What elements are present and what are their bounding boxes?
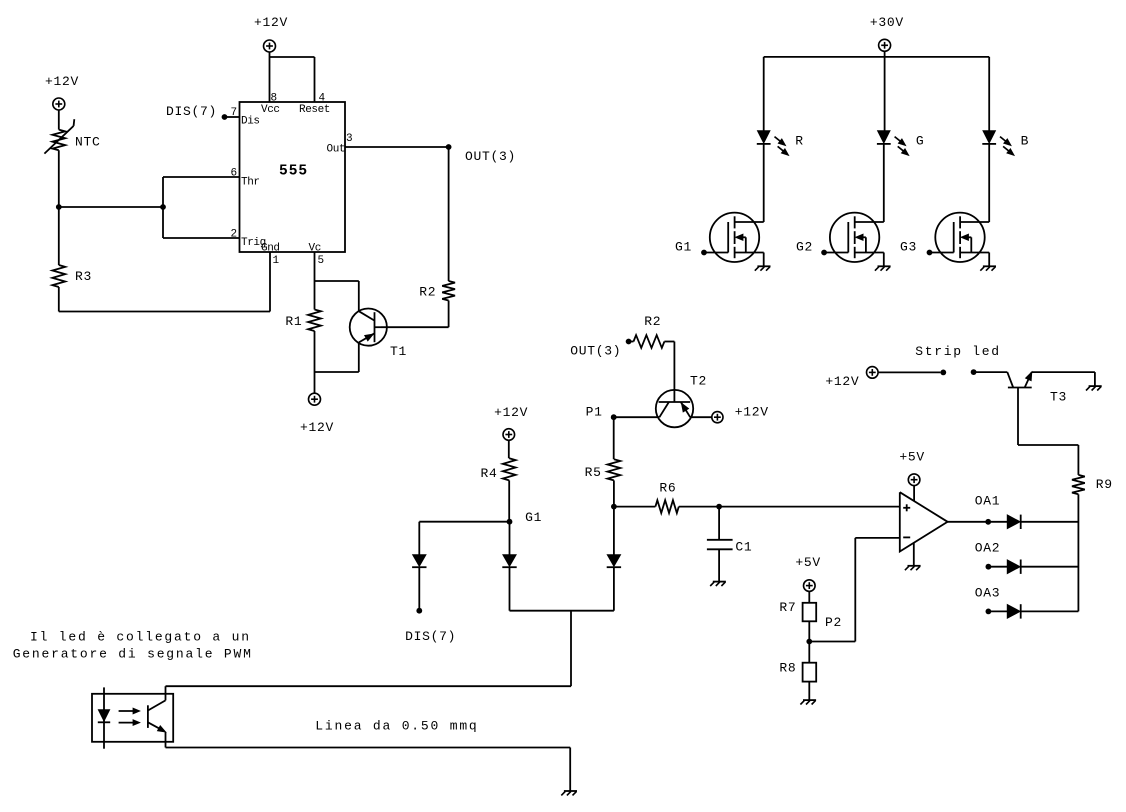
svg-text:OA3: OA3 <box>975 585 1001 600</box>
svg-text:DIS(7): DIS(7) <box>166 104 217 119</box>
svg-text:NTC: NTC <box>75 135 101 150</box>
svg-text:T3: T3 <box>1050 390 1067 405</box>
svg-text:Reset: Reset <box>299 104 330 116</box>
svg-text:G1: G1 <box>675 240 692 255</box>
svg-text:8: 8 <box>271 93 278 105</box>
svg-text:+12V: +12V <box>300 420 334 435</box>
svg-text:G2: G2 <box>796 240 813 255</box>
svg-text:OA2: OA2 <box>975 541 1001 556</box>
svg-text:OUT(3): OUT(3) <box>465 149 516 164</box>
svg-text:R5: R5 <box>585 465 602 480</box>
svg-text:Vcc: Vcc <box>261 104 280 116</box>
svg-text:+12V: +12V <box>45 74 79 89</box>
svg-text:OA1: OA1 <box>975 493 1001 508</box>
svg-text:B: B <box>1021 133 1030 148</box>
svg-text:DIS(7): DIS(7) <box>405 629 456 644</box>
svg-text:R6: R6 <box>659 480 676 495</box>
svg-text:C1: C1 <box>735 540 752 555</box>
svg-text:+12V: +12V <box>254 15 288 30</box>
svg-text:3: 3 <box>346 133 353 145</box>
svg-text:T1: T1 <box>390 344 407 359</box>
svg-text:Dis: Dis <box>241 116 260 128</box>
svg-text:+5V: +5V <box>899 449 925 464</box>
svg-text:Strip led: Strip led <box>915 344 1001 359</box>
svg-text:R4: R4 <box>481 466 498 481</box>
svg-text:+30V: +30V <box>870 15 904 30</box>
svg-text:P2: P2 <box>825 615 842 630</box>
svg-text:R2: R2 <box>419 284 436 299</box>
svg-text:Il led è collegato a un: Il led è collegato a un <box>30 630 251 645</box>
svg-text:4: 4 <box>319 93 326 105</box>
svg-text:T2: T2 <box>690 374 707 389</box>
svg-text:+12V: +12V <box>735 405 769 420</box>
svg-text:Thr: Thr <box>241 177 260 189</box>
svg-text:Generatore di segnale PWM: Generatore di segnale PWM <box>13 646 253 661</box>
svg-text:5: 5 <box>318 255 325 267</box>
svg-text:P1: P1 <box>586 405 603 420</box>
svg-text:R9: R9 <box>1096 477 1113 492</box>
svg-text:+5V: +5V <box>795 555 821 570</box>
svg-text:R7: R7 <box>779 600 796 615</box>
svg-text:R3: R3 <box>75 269 92 284</box>
svg-text:G1: G1 <box>525 510 542 525</box>
svg-text:Out: Out <box>327 144 346 156</box>
svg-text:Linea da 0.50 mmq: Linea da 0.50 mmq <box>315 719 478 734</box>
svg-text:R1: R1 <box>285 314 302 329</box>
svg-text:R2: R2 <box>644 314 661 329</box>
svg-text:+12V: +12V <box>494 405 528 420</box>
svg-text:555: 555 <box>279 164 308 180</box>
svg-text:R: R <box>795 133 804 148</box>
svg-text:+12V: +12V <box>825 374 859 389</box>
svg-text:OUT(3): OUT(3) <box>570 343 621 358</box>
svg-text:G: G <box>916 133 925 148</box>
svg-text:1: 1 <box>273 255 280 267</box>
svg-text:G3: G3 <box>900 240 917 255</box>
svg-text:R8: R8 <box>779 661 796 676</box>
